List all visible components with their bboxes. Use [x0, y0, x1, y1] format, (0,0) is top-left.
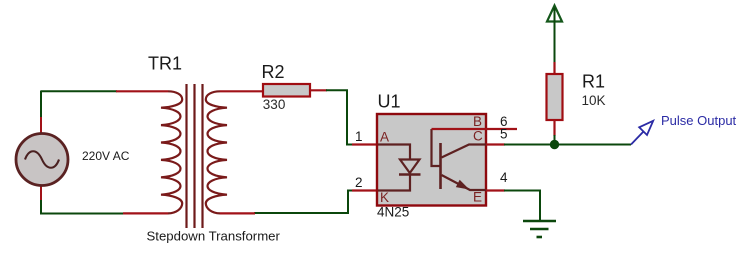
U1 pin 4 stub: [486, 189, 505, 191]
svg-text:220V AC: 220V AC: [82, 149, 130, 163]
transformer TR1 core line 1: [185, 84, 187, 228]
svg-text:4: 4: [500, 170, 508, 185]
resistor R1 body: [547, 74, 563, 120]
wire transformer secondary top to R2 (red): [220, 90, 263, 92]
svg-text:C: C: [473, 129, 483, 144]
U1 collector lead: [442, 145, 487, 158]
wire bottom-left vertical from source: [40, 199, 42, 215]
U1 LED triangle: [400, 160, 420, 174]
U1 pin 6 stub: [486, 128, 517, 130]
power arrow (VCC): [547, 6, 562, 22]
svg-text:4N25: 4N25: [377, 205, 409, 220]
U1 base lead to pin 6: [432, 129, 441, 166]
U1 phototransistor base bar: [439, 143, 442, 189]
svg-text:U1: U1: [378, 92, 401, 112]
svg-text:K: K: [380, 190, 389, 205]
ground bar 3: [537, 236, 543, 239]
ground bar 1: [523, 220, 556, 223]
svg-text:10K: 10K: [582, 93, 606, 108]
U1 LED cathode internal wire: [378, 175, 410, 191]
ground bar 2: [530, 228, 549, 231]
transformer TR1 primary winding: [161, 91, 182, 213]
transformer TR1 pin bottom-left (red): [123, 212, 168, 214]
transformer TR1 core line 2: [193, 84, 195, 228]
probe arrowhead (blue open triangle): [639, 121, 653, 135]
U1 base lead internal red run: [432, 128, 487, 130]
U1 emitter arrowhead: [457, 181, 468, 189]
resistor R2 pin right (red): [310, 89, 327, 91]
wire R1 to junction (green): [554, 135, 556, 144]
AC source V1 pin top (red): [40, 117, 42, 133]
svg-text:B: B: [473, 114, 482, 129]
transformer TR1 secondary winding: [206, 91, 227, 213]
U1 pin 5 stub: [486, 143, 505, 145]
transformer TR1 core line 3: [201, 84, 203, 228]
U1 pin 1 stub: [352, 143, 378, 145]
U1 LED anode internal wire: [378, 145, 410, 160]
AC source V1 body circle: [16, 134, 68, 186]
svg-text:TR1: TR1: [148, 54, 182, 74]
junction dot: [550, 140, 558, 148]
svg-text:5: 5: [500, 127, 508, 142]
wire pin5 to output (green): [504, 144, 631, 146]
svg-text:E: E: [473, 190, 482, 205]
AC source V1 pin bottom (red): [40, 186, 42, 200]
svg-text:R1: R1: [582, 72, 605, 92]
wire power arrow to R1 (green): [554, 8, 556, 64]
wire secondary bottom red part: [220, 212, 255, 214]
wire R2 to U1 pin1 (green, corner): [326, 90, 353, 144]
R1 pin top (red): [553, 62, 555, 74]
transformer TR1 pin top-left (red): [116, 90, 168, 92]
svg-text:Stepdown Transformer: Stepdown Transformer: [147, 229, 281, 244]
probe arrow shaft (blue): [631, 132, 644, 145]
svg-text:330: 330: [263, 97, 286, 112]
wire top-left horizontal from source to transformer: [41, 90, 117, 92]
svg-text:A: A: [380, 130, 389, 145]
wire top-left vertical down to source: [40, 91, 42, 119]
optocoupler U1 body: [377, 114, 486, 206]
svg-text:2: 2: [355, 175, 363, 190]
AC source sine symbol: [25, 151, 59, 168]
wire pin4 to ground (green): [504, 191, 540, 222]
U1 emitter lead: [442, 175, 487, 190]
svg-text:1: 1: [355, 129, 363, 144]
resistor R2 body: [263, 84, 310, 97]
U1 pin 2 stub: [352, 189, 378, 191]
wire bottom-left horizontal to transformer: [40, 213, 124, 215]
svg-text:Pulse Output: Pulse Output: [661, 113, 737, 128]
svg-text:R2: R2: [262, 62, 285, 82]
U1 LED cathode bar: [399, 173, 421, 175]
wire transformer secondary bottom to pin2 riser (green): [254, 191, 353, 214]
R1 pin bottom (red): [553, 120, 555, 136]
